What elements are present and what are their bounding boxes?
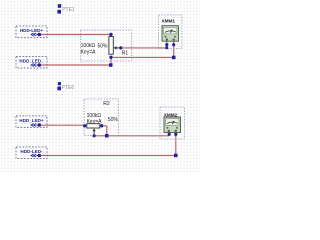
svg-text:HDD-LED+: HDD-LED+ bbox=[20, 28, 44, 33]
svg-text:50%: 50% bbox=[98, 43, 109, 49]
svg-text:R1: R1 bbox=[122, 51, 129, 57]
svg-text:Key=A: Key=A bbox=[81, 49, 97, 55]
svg-text:100kΩ: 100kΩ bbox=[81, 43, 96, 49]
svg-text:HDD_LED_: HDD_LED_ bbox=[19, 59, 44, 64]
svg-text:HDD_LED+: HDD_LED+ bbox=[19, 118, 44, 123]
svg-text:PTE1: PTE1 bbox=[62, 7, 75, 13]
svg-text:R2: R2 bbox=[103, 101, 110, 107]
svg-text:Key=A: Key=A bbox=[87, 119, 103, 125]
svg-text:PTE6: PTE6 bbox=[62, 85, 75, 91]
svg-text:HDD-LED-: HDD-LED- bbox=[20, 149, 43, 154]
svg-text:XMM1: XMM1 bbox=[162, 19, 176, 24]
svg-text:50%: 50% bbox=[108, 117, 119, 123]
